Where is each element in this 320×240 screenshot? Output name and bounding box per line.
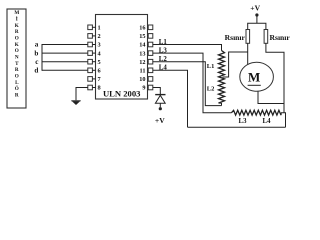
svg-text:14: 14 [139,42,146,49]
svg-text:15: 15 [139,33,145,40]
wire center tap of L1/L2 to resistor node [223,52,248,77]
wire bottom coil right end to bottom rail [281,113,286,128]
svg-text:T: T [15,61,19,67]
svg-text:10: 10 [139,76,145,83]
svg-text:+V: +V [250,4,260,13]
svg-text:Rsınır: Rsınır [225,33,246,42]
svg-text:İ: İ [16,16,18,23]
microcontroller box U0 MIKROKONTROLOR [7,9,26,108]
resistor Rsinir left [246,30,250,44]
IC U1 ULN 2003 box [96,15,148,100]
svg-text:M: M [14,10,19,16]
svg-text:L3: L3 [239,118,248,125]
wire left resistor bottom to motor node [247,43,249,65]
wire +V stub [256,15,258,23]
svg-text:ULN 2003: ULN 2003 [103,88,140,98]
svg-text:L3: L3 [159,48,168,55]
svg-text:M: M [248,69,260,84]
wire a [42,44,88,46]
pin pads left pins 1-8 [88,25,93,90]
svg-text:11: 11 [140,68,146,75]
svg-text:L4: L4 [263,118,272,125]
pin numbers left 1-8 [98,25,102,92]
svg-text:+V: +V [155,116,165,125]
svg-text:b: b [34,49,38,57]
wire d [42,69,88,71]
svg-text:K: K [15,23,19,29]
svg-text:R: R [15,93,19,99]
pin stubs right [147,27,150,87]
ground [71,101,80,105]
diode D1 [155,95,165,111]
svg-text:R: R [15,29,19,35]
svg-text:5: 5 [98,59,101,66]
svg-text:L1: L1 [207,63,215,70]
svg-text:7: 7 [98,76,101,83]
svg-text:9: 9 [142,85,145,92]
wire L2: pin12 to bottom of coil [153,62,222,106]
wire motor bottom to right node [258,92,284,104]
svg-text:12: 12 [139,59,145,66]
coil bottom lead [221,103,223,106]
node +V dot [255,13,258,16]
svg-text:Ö: Ö [15,84,19,92]
motor underline [248,84,261,86]
wire bottom rail [188,126,286,128]
pin stubs left [92,27,95,87]
inductor L1 L2 vertical coil [219,51,225,104]
svg-text:R: R [15,67,19,73]
svg-text:3: 3 [98,42,101,49]
svg-text:d: d [34,67,38,75]
wire top rail [248,23,266,29]
svg-text:L4: L4 [159,65,168,72]
wire bus vertical [41,44,43,71]
wire right resistor bottom to motor bottom node [266,43,284,103]
svg-text:L2: L2 [159,56,168,63]
svg-text:L2: L2 [207,86,215,93]
svg-text:16: 16 [139,25,145,32]
svg-text:L1: L1 [159,39,168,46]
svg-text:13: 13 [139,50,145,57]
svg-text:O: O [15,36,19,42]
svg-text:6: 6 [98,68,101,75]
svg-text:N: N [15,55,19,61]
svg-text:O: O [15,74,19,80]
wire L4: pin11 to bottom rail [153,70,188,127]
wire L3: pin13 to left end of bottom coil [153,53,232,113]
svg-text:Rsınır: Rsınır [270,33,291,42]
svg-text:L: L [15,80,19,86]
wire pin8 to ground [76,88,88,101]
text MIKROKONTROLOR vertical [14,10,19,98]
svg-text:a: a [35,41,39,49]
inductor L3 L4 horizontal coil [232,110,282,115]
wire b [42,52,88,54]
motor M circle [240,62,274,91]
svg-text:2: 2 [98,33,101,40]
wire L1: pin14 to top of coil [153,45,222,51]
resistor Rsinir right [264,30,268,44]
svg-text:K: K [15,42,19,48]
svg-text:8: 8 [98,85,101,92]
wire c [42,61,88,63]
svg-text:1: 1 [98,25,101,32]
wire pin9 to diode [153,88,161,95]
pin numbers right 16-9 [139,25,146,92]
svg-text:O: O [15,48,19,54]
pin pads right pins 16-9 [148,25,153,90]
wire node down to bottom coil right end [283,104,285,113]
